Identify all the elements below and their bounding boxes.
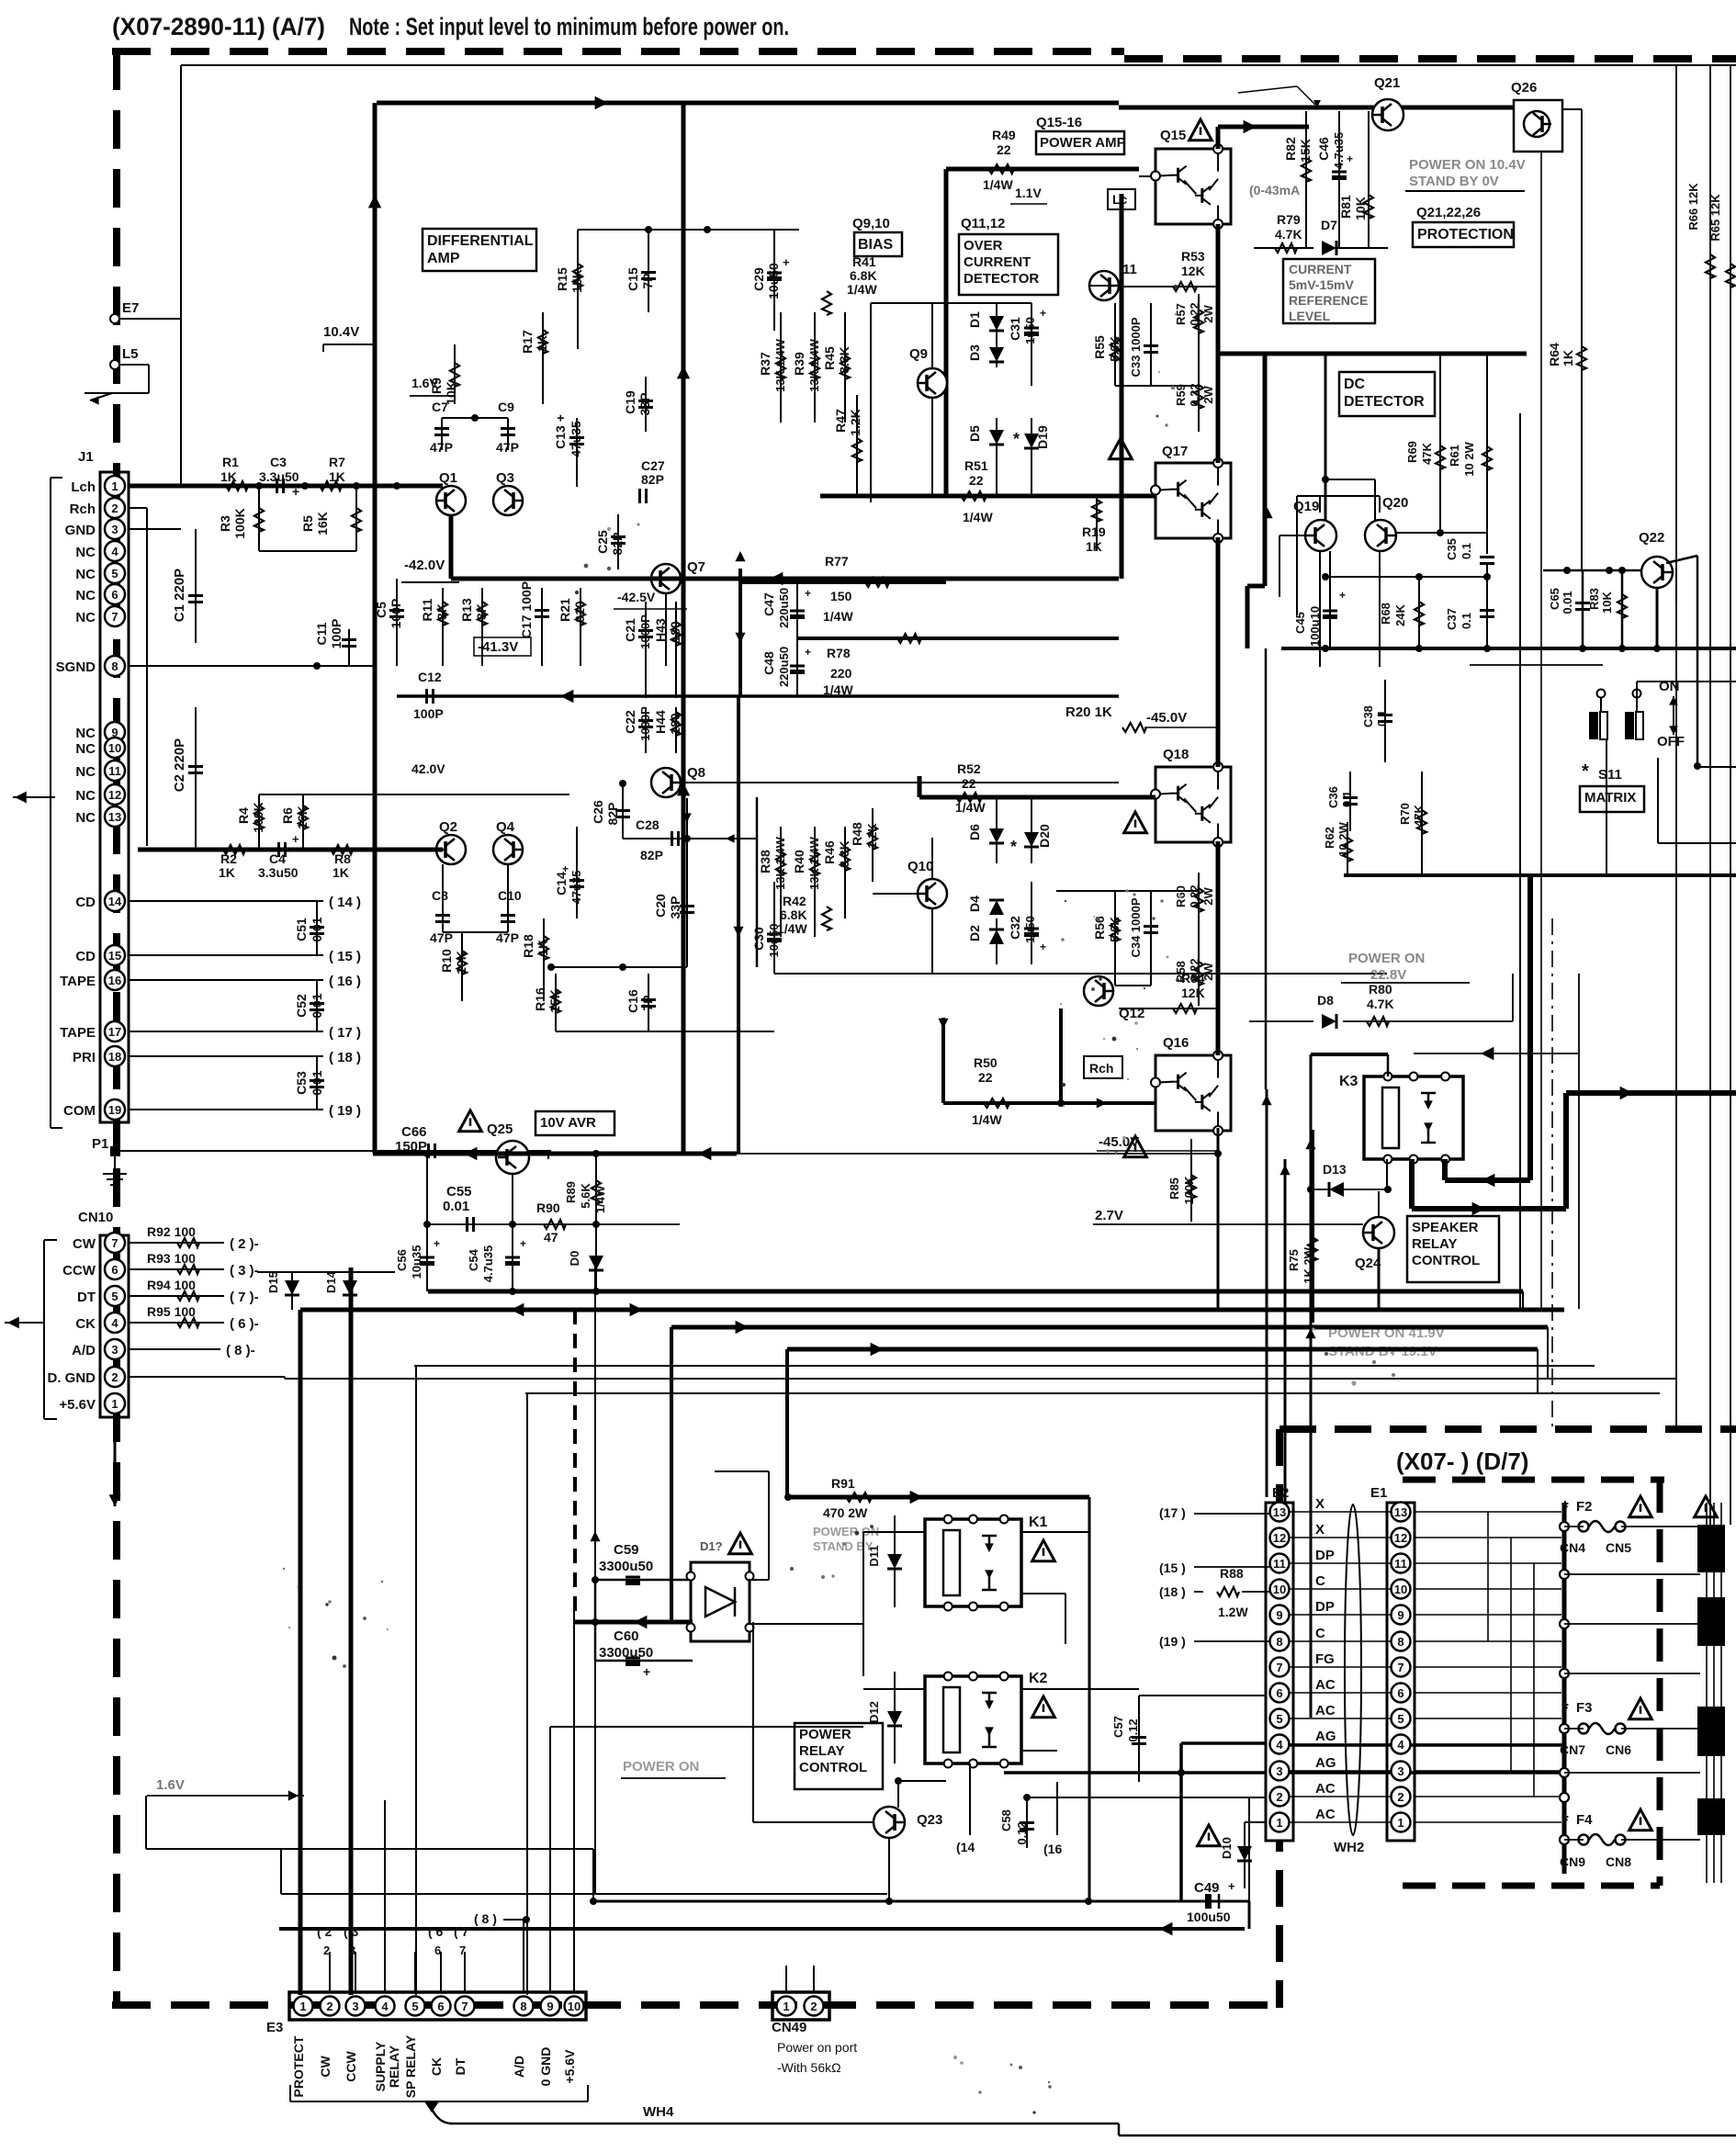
svg-text:NC: NC	[75, 726, 96, 741]
svg-text:8: 8	[1276, 1635, 1282, 1649]
svg-text:CN6: CN6	[1606, 1742, 1631, 1757]
capacitor C9	[501, 427, 515, 430]
capacitor C47	[796, 582, 798, 638]
E1 pin 1	[1392, 1813, 1411, 1832]
svg-text:CN5: CN5	[1606, 1540, 1631, 1555]
connector E1 body	[1387, 1503, 1415, 1841]
wire J1 pin 19 to terminal	[129, 1109, 323, 1110]
svg-text:( 18 ): ( 18 )	[329, 1050, 361, 1065]
wire WH4	[450, 2123, 1119, 2125]
diode D7	[1322, 241, 1336, 255]
svg-text:R81: R81	[1338, 195, 1353, 219]
svg-text:3: 3	[352, 2000, 358, 2013]
svg-text:22.8V: 22.8V	[1370, 967, 1406, 983]
svg-text:10: 10	[108, 741, 121, 755]
capacitor C54	[512, 1174, 513, 1291]
wire fuse rows	[1621, 1526, 1700, 1527]
svg-text:FG: FG	[1315, 1651, 1335, 1667]
J1 pin 1 (Lch)	[105, 476, 125, 496]
svg-text:S11: S11	[1598, 767, 1622, 783]
svg-text:Q11,12: Q11,12	[961, 216, 1005, 231]
svg-text:R3: R3	[218, 515, 232, 532]
svg-text:3: 3	[1397, 1764, 1403, 1778]
svg-text:1/4W: 1/4W	[593, 1185, 607, 1213]
svg-text:COM: COM	[63, 1103, 96, 1119]
svg-text:CN49: CN49	[772, 2020, 806, 2035]
svg-text:SP RELAY: SP RELAY	[403, 2034, 418, 2098]
capacitor C35	[1480, 556, 1494, 558]
svg-text:R21: R21	[558, 598, 572, 622]
wire bridge bottom	[594, 1580, 597, 1661]
svg-text:4: 4	[1276, 1738, 1283, 1752]
svg-text:+: +	[1339, 589, 1346, 602]
svg-text:Q22: Q22	[1639, 530, 1664, 546]
svg-text:*: *	[1561, 1498, 1569, 1518]
resistor R48	[872, 808, 874, 882]
transistor Q8	[651, 768, 681, 797]
svg-text:1K: 1K	[535, 335, 549, 352]
bus R77 row	[740, 580, 946, 584]
svg-text:47K: 47K	[1412, 804, 1426, 826]
svg-text:C16: C16	[626, 989, 640, 1013]
svg-text:L5: L5	[122, 346, 139, 362]
J1 pin 7 (NC)	[105, 606, 125, 626]
bus K3 out right	[1566, 1090, 1736, 1096]
svg-text:11: 11	[1122, 262, 1137, 277]
capacitor C52	[316, 980, 318, 1031]
wire AG rows thick	[1290, 1743, 1564, 1747]
svg-text:CD: CD	[75, 949, 96, 964]
wire C8 C10 bottom	[443, 931, 508, 933]
svg-text:0.1: 0.1	[1340, 791, 1354, 807]
capacitor C14	[576, 827, 578, 918]
wire Q10 stubs	[873, 893, 918, 895]
svg-text:R59: R59	[1174, 384, 1188, 406]
svg-text:CCW: CCW	[62, 1263, 96, 1279]
svg-text:Power on port: Power on port	[777, 2040, 857, 2055]
svg-text:2: 2	[111, 501, 118, 515]
svg-text:5.6K: 5.6K	[579, 1183, 592, 1209]
svg-text:5mV-15mV: 5mV-15mV	[1289, 277, 1354, 292]
svg-text:C21: C21	[623, 618, 637, 642]
svg-text:CN8: CN8	[1606, 1854, 1631, 1869]
svg-text:R49: R49	[992, 128, 1016, 142]
svg-text:( 6 )-: ( 6 )-	[230, 1316, 259, 1332]
J1 pin 19 (COM)	[105, 1099, 125, 1120]
svg-text:10u50: 10u50	[767, 924, 781, 958]
right vertical wires	[1706, 1503, 1708, 1883]
capacitor C8	[435, 914, 450, 917]
ground	[85, 392, 149, 394]
wire E2-E1 row 11 (DP)	[1290, 1562, 1391, 1564]
resistor R65	[1730, 64, 1731, 1525]
svg-text:3K: 3K	[474, 603, 489, 620]
svg-text:GND: GND	[65, 523, 96, 538]
bus power amp column	[1120, 194, 1124, 579]
wire E2-E1 row 9 (DP)	[1290, 1614, 1391, 1616]
svg-text:15K: 15K	[547, 989, 562, 1013]
svg-text:C38: C38	[1361, 705, 1375, 727]
svg-text:4.7K: 4.7K	[1367, 997, 1394, 1011]
svg-text:R46: R46	[822, 840, 837, 864]
svg-text:CN9: CN9	[1560, 1854, 1585, 1869]
svg-text:CONTROL: CONTROL	[799, 1760, 867, 1775]
resistor R61	[1486, 354, 1488, 554]
svg-text:10K: 10K	[454, 951, 468, 975]
wire Q23 collector	[897, 1781, 899, 1808]
vertical riser 1	[1266, 1089, 1268, 1497]
warning triangle Q16	[1124, 1136, 1147, 1157]
bus lower supply rail	[397, 694, 1119, 698]
wire right rail 1	[1675, 64, 1677, 1426]
bus R50 rail	[943, 1101, 1155, 1105]
svg-text:0.22: 0.22	[1188, 884, 1201, 907]
resistor R85	[1190, 1139, 1192, 1222]
diode D1	[996, 303, 998, 367]
wire fuse feeds	[1564, 1526, 1584, 1527]
svg-text:47u35: 47u35	[569, 871, 583, 905]
wire output riser down	[1265, 648, 1268, 1089]
bus top rail right	[1119, 106, 1514, 110]
svg-text:1K: 1K	[1086, 539, 1102, 554]
svg-text:( 16 ): ( 16 )	[329, 974, 361, 989]
svg-text:+: +	[1040, 941, 1046, 953]
diode D20	[1031, 797, 1032, 863]
row resistor R13	[481, 588, 483, 666]
svg-text:Q21: Q21	[1374, 75, 1400, 91]
svg-text:D1?: D1?	[700, 1539, 723, 1553]
row2 resistor R4	[258, 794, 260, 850]
dashed sheet border A/7 top	[112, 48, 1124, 55]
svg-text:R61: R61	[1448, 445, 1461, 467]
svg-text:8: 8	[1397, 1635, 1403, 1649]
bus low 2	[300, 1308, 1564, 1313]
J1 pin 18 (PRI)	[105, 1046, 125, 1066]
svg-text:22: 22	[978, 1070, 993, 1085]
capacitor C4	[277, 842, 280, 857]
svg-text:R94 100: R94 100	[147, 1278, 196, 1292]
svg-text:(15 ): (15 )	[1159, 1560, 1186, 1575]
resistor R3	[258, 486, 260, 551]
svg-text:1000P: 1000P	[638, 614, 652, 649]
svg-text:Q15: Q15	[1160, 128, 1186, 143]
svg-text:Rch: Rch	[1089, 1061, 1113, 1076]
bus Q15 collector link	[1216, 127, 1221, 149]
svg-text:D2: D2	[967, 925, 982, 941]
svg-text:K2: K2	[1029, 1671, 1048, 1686]
svg-text:C46: C46	[1316, 137, 1331, 161]
row resistor R11	[442, 588, 444, 666]
warning triangle right edge	[1695, 1496, 1718, 1517]
svg-text:1.1V: 1.1V	[1015, 186, 1042, 200]
svg-text:1K: 1K	[219, 865, 235, 880]
svg-text:*: *	[1013, 430, 1020, 448]
resistor R70	[1421, 772, 1423, 875]
svg-text:Q8: Q8	[687, 765, 705, 781]
svg-text:DP: DP	[1315, 1599, 1335, 1615]
svg-text:4: 4	[111, 545, 118, 558]
svg-text:13: 13	[108, 810, 121, 824]
svg-text:R65 12K: R65 12K	[1708, 194, 1722, 242]
E1 pin 13	[1392, 1503, 1411, 1522]
svg-text:6: 6	[434, 1944, 441, 1957]
node Lch junction	[255, 482, 263, 490]
svg-text:R53: R53	[1181, 249, 1205, 264]
row capacitor C5	[396, 579, 398, 666]
capacitor C20	[686, 798, 688, 967]
transistor Q21	[1372, 99, 1403, 130]
svg-text:RELAY: RELAY	[1412, 1236, 1457, 1252]
svg-text:Q17: Q17	[1162, 444, 1188, 459]
svg-text:100K: 100K	[1182, 1176, 1196, 1205]
capacitor C25	[617, 514, 619, 569]
svg-text:1K 2W: 1K 2W	[1302, 1246, 1315, 1283]
E2 pin 13	[1270, 1503, 1290, 1522]
svg-text:C11: C11	[314, 622, 329, 645]
svg-text:-45.0V: -45.0V	[1146, 710, 1187, 726]
svg-text:CK: CK	[75, 1316, 96, 1332]
svg-text:C55: C55	[446, 1184, 472, 1200]
capacitor C21	[645, 602, 647, 698]
capacitor C32	[1031, 882, 1032, 964]
J1 pin 17 (TAPE)	[105, 1021, 125, 1042]
svg-text:(17 ): (17 )	[1159, 1505, 1186, 1520]
svg-text:C52: C52	[294, 994, 309, 1018]
svg-text:1/4W: 1/4W	[847, 282, 877, 297]
svg-text:1: 1	[111, 479, 118, 493]
svg-text:WH2: WH2	[1334, 1840, 1364, 1855]
svg-text:CD: CD	[75, 895, 96, 910]
warning triangle F3	[1629, 1698, 1652, 1719]
svg-text:R88: R88	[1220, 1566, 1244, 1581]
wire E2-E1 row 12 (X)	[1290, 1537, 1391, 1538]
E1 pin 5	[1392, 1709, 1411, 1729]
sheet boundary dash-dot	[1551, 918, 1553, 1429]
bus Q1 to Q7	[449, 515, 454, 579]
svg-text:R51: R51	[964, 458, 988, 473]
svg-text:0.01: 0.01	[1561, 591, 1574, 614]
diode D3	[989, 347, 1004, 362]
svg-text:CN7: CN7	[1560, 1742, 1585, 1757]
svg-text:R70: R70	[1398, 803, 1412, 825]
svg-text:1/4W: 1/4W	[972, 1112, 1002, 1127]
svg-text:C57: C57	[1111, 1716, 1125, 1738]
svg-text:C20: C20	[653, 894, 668, 918]
vertical dashed feeder	[573, 1310, 577, 1622]
resistor R95	[129, 1322, 224, 1324]
svg-text:100K: 100K	[251, 802, 265, 832]
transistor Q3	[493, 486, 523, 515]
svg-text:6: 6	[437, 2000, 444, 2013]
switch S11 contact A	[1597, 690, 1606, 698]
svg-text:NC: NC	[75, 788, 96, 804]
svg-text:POWER ON 10.4V: POWER ON 10.4V	[1409, 157, 1526, 173]
svg-text:9: 9	[547, 2000, 553, 2013]
bus base rail	[451, 577, 1119, 581]
svg-text:3: 3	[111, 523, 118, 536]
capacitor C12	[425, 689, 428, 704]
svg-text:(0-43mA: (0-43mA	[1249, 183, 1300, 197]
J1 pin 4 (NC)	[105, 541, 125, 561]
svg-text:4: 4	[1397, 1738, 1404, 1752]
svg-text:Q10: Q10	[907, 859, 933, 874]
svg-text:C33 1000P: C33 1000P	[1129, 317, 1143, 377]
svg-text:1K: 1K	[535, 940, 550, 956]
wire E2-E1 row 5 (AC)	[1290, 1718, 1391, 1719]
wire K3 coil down	[1386, 1159, 1388, 1191]
diode D0	[595, 1224, 597, 1291]
svg-text:D0: D0	[568, 1251, 581, 1267]
svg-text:D6: D6	[967, 824, 982, 840]
dashed inner frame bottom	[1403, 1883, 1660, 1889]
svg-text:1K: 1K	[220, 469, 237, 484]
svg-text:A/D: A/D	[512, 2056, 526, 2078]
left edge arrow 1	[13, 796, 55, 798]
svg-text:+: +	[1040, 307, 1046, 320]
E2 pin 10	[1270, 1580, 1290, 1599]
wire E2-E1 row 3 (AG)	[1290, 1770, 1391, 1772]
resistor R17	[542, 312, 544, 404]
wire D8 corner	[1512, 974, 1514, 1021]
wire jog d	[279, 1927, 1245, 1931]
svg-text:TAPE: TAPE	[60, 974, 96, 989]
dashed sheet border A/7 left	[113, 51, 120, 2005]
wire E2-E1 row 2 (AC)	[1290, 1796, 1391, 1797]
terminal bar 4	[1697, 1798, 1725, 1835]
svg-text:POWER AMP: POWER AMP	[1040, 135, 1126, 151]
wire R52 rail	[919, 795, 1155, 800]
pin E7	[110, 314, 119, 323]
svg-text:R66 12K: R66 12K	[1686, 183, 1700, 231]
svg-text:NC: NC	[75, 610, 96, 625]
svg-text:D1: D1	[967, 311, 982, 328]
svg-text:6: 6	[111, 588, 118, 602]
svg-text:3: 3	[349, 1944, 355, 1957]
CN49 risers	[785, 1966, 787, 1992]
wire E2 feed 2	[1027, 1797, 1266, 1798]
svg-text:1/4W: 1/4W	[983, 177, 1013, 192]
box MATRIX	[1580, 786, 1644, 812]
svg-text:R82: R82	[1283, 137, 1298, 161]
E1 pin 7	[1392, 1658, 1411, 1677]
svg-text:R91: R91	[831, 1476, 855, 1491]
capacitor C46	[1338, 111, 1340, 248]
CN10 pin 1 (+5.6V)	[105, 1393, 125, 1414]
svg-text:180: 180	[668, 621, 682, 643]
resistor R10	[461, 932, 463, 1001]
resistor R38	[780, 827, 782, 937]
svg-text:R95 100: R95 100	[147, 1304, 196, 1319]
svg-text:RELAY: RELAY	[387, 2045, 401, 2088]
svg-text:150: 150	[830, 589, 852, 603]
bus R91 down	[1088, 1497, 1091, 1901]
wire Q24 collector	[1378, 1191, 1380, 1217]
warning triangle bridge	[729, 1533, 752, 1554]
J1 bracket	[50, 478, 51, 1128]
transistor Q1	[436, 486, 466, 515]
svg-text:2.7V: 2.7V	[1095, 1208, 1123, 1223]
capacitor C10	[501, 914, 515, 917]
svg-text:CW: CW	[73, 1236, 96, 1252]
wire DC mid node	[1325, 576, 1487, 578]
wire pointer to Q21	[1238, 86, 1297, 93]
wire J1 pin 16 to terminal	[129, 979, 323, 981]
svg-text:1/4W: 1/4W	[823, 609, 853, 624]
resistor R16	[555, 974, 557, 1031]
svg-text:Q3: Q3	[496, 470, 514, 486]
CN10 pin 7 (CW)	[105, 1233, 125, 1253]
svg-text:13K 1/4W: 13K 1/4W	[807, 836, 821, 890]
capacitor C45	[1329, 551, 1331, 648]
svg-text:CCW: CCW	[344, 2050, 358, 2081]
vertical feeder e	[594, 1268, 596, 1894]
capacitor C37	[1486, 577, 1488, 648]
svg-text:SUPPLY: SUPPLY	[373, 2041, 388, 2091]
dashed sheet border B/7 top	[1124, 55, 1736, 62]
wire matrix right	[1344, 873, 1736, 877]
E1 pin 12	[1392, 1528, 1411, 1548]
svg-text:0.22: 0.22	[1188, 383, 1201, 406]
svg-text:7: 7	[461, 2000, 468, 2013]
svg-text:R78: R78	[827, 646, 851, 660]
svg-text:2: 2	[111, 1370, 118, 1384]
svg-text:3300u50: 3300u50	[599, 1559, 653, 1574]
svg-text:(19 ): (19 )	[1159, 1634, 1186, 1649]
warning triangle F2	[1629, 1496, 1652, 1517]
svg-text:R93 100: R93 100	[147, 1251, 196, 1266]
CN10 bracket	[43, 1240, 45, 1419]
capacitor C56	[426, 1154, 428, 1291]
resistor R92	[129, 1242, 224, 1244]
wire bottom rail diff	[556, 1031, 774, 1032]
svg-text:R52: R52	[957, 761, 981, 776]
svg-text:D8: D8	[1317, 993, 1334, 1008]
wire SGND	[129, 665, 375, 667]
svg-text:Q18: Q18	[1163, 747, 1189, 762]
svg-text:R89: R89	[564, 1181, 578, 1203]
capacitor C19	[638, 400, 653, 402]
wire K1 right	[1021, 1531, 1089, 1533]
svg-text:6.8K: 6.8K	[850, 268, 877, 283]
long wire low b	[281, 1893, 887, 1895]
svg-text:C7: C7	[432, 400, 448, 414]
svg-text:D5: D5	[967, 425, 982, 442]
svg-text:F3: F3	[1576, 1700, 1593, 1716]
dashed sheet border A/7 bottom	[112, 2001, 1283, 2009]
dashed sheet border D/7 top	[1279, 1425, 1736, 1433]
transistor Q7	[651, 564, 681, 593]
bus center drop 2	[737, 696, 740, 1154]
pin L5	[110, 360, 119, 369]
J1 pin 10 (NC)	[105, 738, 125, 758]
svg-text:NC: NC	[75, 545, 96, 560]
wire low 6	[285, 1378, 1676, 1380]
wire low 7	[525, 1392, 1660, 1394]
E3 pin 7 (DT)	[456, 1997, 475, 2016]
svg-text:C49: C49	[1194, 1880, 1220, 1896]
resistor R93	[129, 1268, 224, 1270]
connector E2 body	[1266, 1503, 1293, 1841]
svg-text:C3: C3	[270, 455, 287, 469]
svg-text:47P: 47P	[430, 440, 453, 455]
svg-text:D14: D14	[324, 1270, 338, 1293]
svg-text:R7: R7	[329, 455, 345, 469]
svg-text:1: 1	[1397, 1816, 1403, 1830]
svg-text:R2: R2	[220, 851, 237, 866]
svg-text:R8: R8	[334, 851, 351, 866]
svg-text:42.0V: 42.0V	[411, 761, 445, 776]
svg-text:4: 4	[111, 1316, 118, 1330]
